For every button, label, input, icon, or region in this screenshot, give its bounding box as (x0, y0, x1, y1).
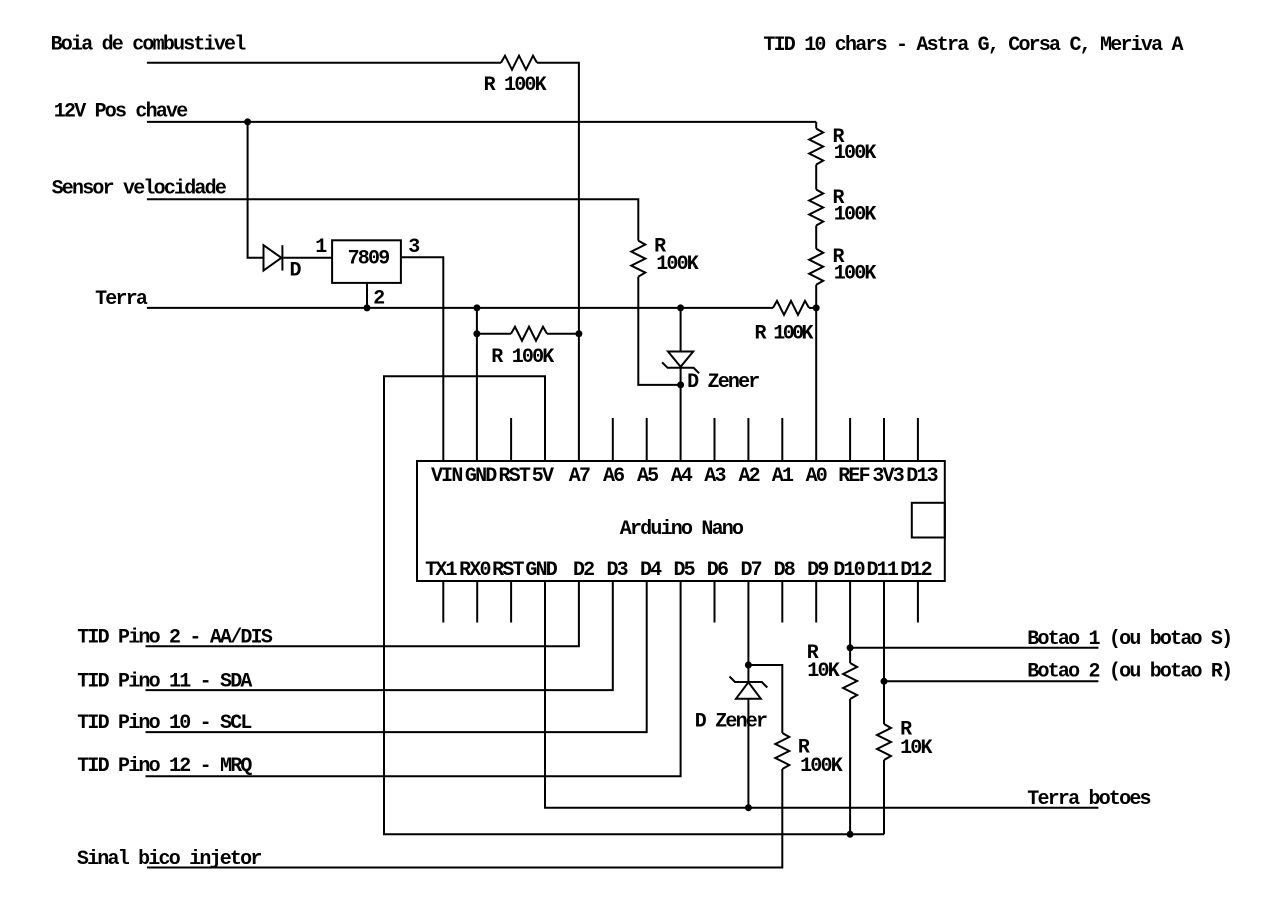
wire Terra to zener1 (680, 308, 682, 352)
wire D5 to TID Pino 12 (146, 581, 681, 776)
svg-text:D5: D5 (673, 559, 694, 582)
svg-text:Terra botoes: Terra botoes (1027, 788, 1150, 811)
svg-text:D12: D12 (900, 559, 931, 582)
wire D11 pullup to 5V rail (883, 760, 885, 834)
resistor R 100K (boia divider top) (501, 56, 537, 70)
junction divider on A7 line (575, 330, 582, 337)
svg-text:7809: 7809 (348, 248, 390, 271)
wire Botao 1 (850, 647, 1098, 649)
op Arduino Nano body (417, 461, 945, 581)
zener diode D Zener (A4 clamp) (668, 352, 693, 367)
wire Terra to GND pin (476, 308, 478, 461)
resistor R 100K (sensor series) (631, 241, 645, 277)
junction divider left top (473, 330, 480, 337)
junction D11/Botao2 (881, 678, 888, 685)
wire 7809 pin2 to Terra (366, 283, 368, 308)
svg-text:Sensor velocidade: Sensor velocidade (52, 178, 227, 201)
junction 12V branch (244, 118, 251, 125)
wire 12V down to chain (815, 122, 817, 129)
wire 12V Pos chave (147, 121, 816, 123)
wire Sensor velocidade (147, 199, 638, 240)
svg-text:GND: GND (525, 559, 557, 582)
svg-text:TID Pino 12 - MRQ: TID Pino 12 - MRQ (77, 755, 252, 778)
svg-text:A2: A2 (738, 465, 759, 488)
svg-text:A5: A5 (637, 465, 658, 488)
wire D4 to TID Pino 10 (146, 581, 647, 732)
svg-text:A3: A3 (704, 465, 725, 488)
svg-text:R 100K: R 100K (755, 323, 814, 346)
svg-text:Boia de combustivel: Boia de combustivel (51, 34, 247, 57)
zener diode D Zener (injector clamp) (730, 677, 768, 688)
svg-text:100K: 100K (834, 142, 877, 165)
diode D (series protection) (264, 245, 282, 270)
svg-text:D3: D3 (606, 559, 627, 582)
svg-text:D6: D6 (707, 559, 728, 582)
junction zener1 top on Terra (677, 304, 684, 311)
svg-text:TX1: TX1 (425, 559, 457, 582)
svg-text:D13: D13 (906, 465, 937, 488)
junction zener2 anode on Terra botoes (745, 804, 752, 811)
svg-text:RST: RST (492, 559, 524, 582)
svg-text:R 100K: R 100K (484, 74, 547, 97)
wire GND pin to Terra botoes (545, 581, 1098, 808)
wire divider right stub (547, 333, 579, 335)
wire resistor to A0 node (809, 307, 816, 309)
wire zener2 to Terra botoes (747, 699, 749, 808)
wire Sinal bico injetor (147, 769, 782, 868)
svg-text:A6: A6 (603, 465, 624, 488)
wire sensor resistor to zener node (638, 277, 680, 385)
svg-text:RST: RST (498, 465, 530, 488)
svg-text:D Zener: D Zener (695, 711, 767, 734)
wire D10 down (849, 581, 851, 663)
svg-text:10K: 10K (900, 737, 932, 760)
svg-text:100K: 100K (834, 203, 877, 226)
pin stubs top (unconnected) (511, 418, 918, 461)
svg-text:D9: D9 (807, 559, 828, 582)
svg-text:D2: D2 (573, 559, 594, 582)
wire D2 to TID Pino 2 (146, 581, 579, 646)
svg-text:5V: 5V (532, 465, 554, 488)
wire divider left stub (477, 333, 511, 335)
svg-text:1: 1 (315, 236, 327, 259)
wire 12V branch down to diode (248, 122, 264, 258)
junction GND vertical on Terra (473, 304, 480, 311)
svg-text:Botao 1 (ou botao S): Botao 1 (ou botao S) (1027, 628, 1231, 651)
wire 7809 pin3 to VIN (401, 257, 443, 461)
wire diode to 7809 pin1 (283, 257, 332, 259)
svg-text:A1: A1 (772, 465, 794, 488)
svg-text:12V Pos chave: 12V Pos chave (54, 100, 188, 123)
wire Boia de combustivel (147, 62, 501, 64)
pin labels top row VIN..D13 (431, 465, 938, 488)
svg-text:100K: 100K (834, 263, 877, 286)
svg-text:Botao 2 (ou botao R): Botao 2 (ou botao R) (1027, 661, 1231, 684)
wire Terra (147, 307, 773, 309)
svg-text:REF: REF (838, 465, 869, 488)
pin labels bottom row TX1..D12 (425, 559, 932, 582)
svg-text:A4: A4 (671, 465, 693, 488)
resistor R 100K (terra to A0 node) (773, 301, 809, 315)
resistor R 10K (D11 pullup) (877, 724, 891, 760)
resistor R 100K (injector series) (775, 733, 789, 769)
svg-text:D Zener: D Zener (687, 371, 759, 394)
svg-text:A7: A7 (569, 465, 590, 488)
junction chain/A0/R100K node (813, 304, 820, 311)
wire Botao 2 (884, 680, 1098, 682)
wire D11 down (883, 581, 885, 724)
resistor R 100K chain 2 (809, 190, 823, 226)
svg-text:3: 3 (408, 236, 419, 259)
svg-text:D8: D8 (774, 559, 795, 582)
resistor R 100K chain 1 (809, 129, 823, 165)
svg-text:D11: D11 (866, 559, 898, 582)
wire D10 pullup to 5V rail (849, 699, 851, 834)
svg-text:D: D (290, 259, 302, 282)
resistor R 100K chain 3 (809, 249, 823, 285)
usb connector notch (912, 503, 945, 538)
svg-text:TID 10 chars - Astra G, Corsa: TID 10 chars - Astra G, Corsa C, Meriva … (763, 34, 1183, 57)
svg-text:100K: 100K (656, 253, 699, 276)
pin stubs bottom (unconnected) (443, 581, 918, 623)
svg-text:D10: D10 (833, 559, 864, 582)
wire boia to A7 vertical (537, 63, 579, 461)
svg-text:R 100K: R 100K (491, 346, 554, 369)
resistor R 10K (D10 pullup) (843, 663, 857, 699)
junction pullup1 on 5V rail (847, 831, 854, 838)
wire injector R to D7 branch (748, 665, 782, 733)
wire zener1 to A4 (680, 368, 682, 461)
junction D10/Botao1 (847, 644, 854, 651)
svg-text:100K: 100K (800, 755, 843, 778)
svg-text:GND: GND (465, 465, 497, 488)
resistor R 100K (A7 divider bottom) (511, 327, 547, 341)
wire chain3 to Terra junction and A0 (815, 285, 817, 461)
wire D7 down to zener2 (747, 581, 749, 682)
svg-text:VIN: VIN (431, 465, 462, 488)
wire chain1-chain2 (815, 165, 817, 190)
wire D3 to TID Pino 11 (146, 581, 613, 690)
svg-text:Arduino Nano: Arduino Nano (620, 518, 744, 541)
junction zener1 bottom node (677, 381, 684, 388)
svg-text:D7: D7 (740, 559, 761, 582)
svg-text:10K: 10K (807, 660, 839, 683)
svg-text:A0: A0 (806, 465, 827, 488)
wire chain2-chain3 (815, 226, 817, 249)
svg-text:D4: D4 (640, 559, 662, 582)
svg-text:RX0: RX0 (459, 559, 490, 582)
junction D7 branch to R100K (745, 662, 752, 669)
regulator 7809 box (332, 240, 401, 283)
svg-text:3V3: 3V3 (872, 465, 903, 488)
junction 7809 pin2 on Terra (364, 304, 371, 311)
wire 5V pin loop to pullup rail (384, 376, 884, 834)
svg-text:Terra: Terra (95, 288, 148, 311)
